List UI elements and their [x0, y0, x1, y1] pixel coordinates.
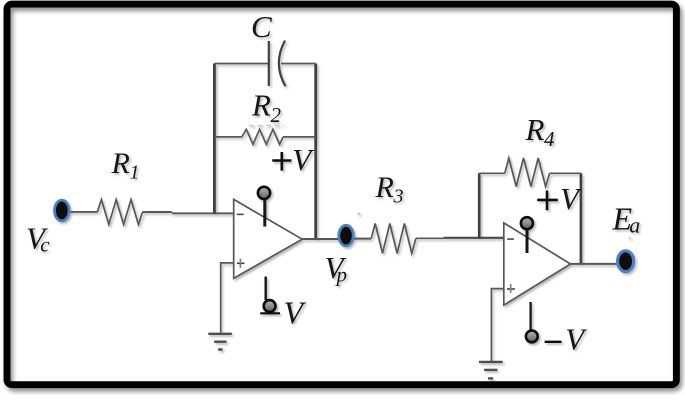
svg-text:1: 1 — [130, 161, 140, 183]
U2 -V supply stem — [529, 302, 531, 330]
U1 plus pin mark — [237, 262, 244, 264]
wire feedback-1 left vertical — [213, 64, 216, 214]
wire feedback-2 left vertical — [478, 173, 481, 239]
U2 +V supply ball — [521, 217, 533, 229]
capacitor C — [269, 41, 286, 87]
svg-text:c: c — [40, 233, 50, 257]
artifact speck near Vp — [358, 213, 361, 216]
node Vc terminal — [55, 200, 70, 221]
U1 minus pin mark — [237, 213, 244, 215]
wire U2 output to Ea — [570, 263, 618, 265]
svg-text:3: 3 — [393, 185, 404, 207]
wire feedback-1 R2 rung — [214, 136, 315, 138]
ground GND2 — [479, 362, 503, 379]
op-amp U1 — [234, 199, 302, 278]
svg-text:R: R — [375, 171, 394, 204]
resistor R1 — [97, 200, 142, 225]
wire R3 to U2 inverting input — [416, 237, 444, 239]
resistor R3 — [371, 224, 416, 254]
U1 -V supply stem — [265, 277, 267, 301]
wire feedback-1 top rung — [214, 63, 315, 65]
wire U1 output to R3 — [302, 238, 371, 240]
wire feedback-2 top rung — [479, 172, 581, 174]
U1 +V supply ball — [258, 187, 270, 199]
svg-text:R: R — [111, 147, 130, 180]
U1 +V supply stem — [263, 193, 266, 227]
U1 -V supply ball — [264, 300, 276, 312]
U2 minus pin mark — [507, 238, 514, 240]
node Ea terminal — [618, 251, 634, 272]
svg-text:4: 4 — [544, 127, 555, 151]
U2 plus pin mark — [507, 288, 515, 290]
ground GND1 — [208, 334, 232, 350]
label +V of U1 plus sign — [272, 152, 291, 171]
svg-text:p: p — [335, 262, 348, 286]
U2 -V supply ball — [526, 331, 538, 343]
U1 -V minus sign — [260, 312, 280, 314]
U2 +V supply stem — [526, 223, 529, 253]
U2 -V minus sign — [545, 341, 562, 343]
svg-text:V: V — [560, 181, 582, 216]
resistor R4 — [505, 158, 550, 187]
R2 label dashed underline artifact — [249, 125, 284, 127]
svg-text:C: C — [251, 9, 272, 44]
op-amp U2 — [504, 223, 571, 305]
wire feedback-1 right vertical — [314, 64, 317, 240]
wire feedback-2 right vertical — [580, 173, 583, 264]
svg-text:V: V — [565, 322, 587, 357]
svg-text:V: V — [292, 142, 314, 177]
resistor R2 — [242, 129, 283, 144]
wire junction segment to U2 inverting input — [444, 237, 504, 239]
svg-text:R: R — [525, 112, 545, 147]
node Vp terminal — [339, 225, 353, 246]
label +V of U2 plus sign — [537, 191, 558, 211]
wire input Vc to R1 to op-amp U1 inverting input — [71, 212, 234, 213]
svg-text:a: a — [629, 213, 640, 238]
svg-text:R: R — [251, 87, 271, 122]
artifact speck below Ea — [629, 237, 631, 239]
wire U2 non-inverting to ground — [491, 289, 503, 362]
wire U1 non-inverting to ground — [221, 263, 234, 333]
svg-text:2: 2 — [271, 103, 282, 127]
